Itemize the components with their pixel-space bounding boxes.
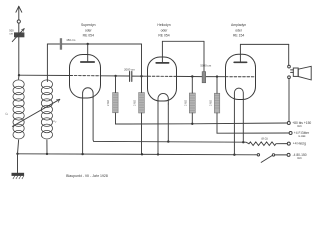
svg-text:Superdyn: Superdyn [81,23,96,27]
svg-text:cm: cm [10,32,13,35]
svg-text:Heliodyn: Heliodyn [157,23,170,27]
svg-text:RE 054: RE 054 [83,34,94,38]
svg-text:(8 Ω): (8 Ω) [261,136,267,140]
svg-text:2 MΩ: 2 MΩ [184,100,187,106]
svg-text:5000 cm: 5000 cm [200,64,211,68]
svg-text:oder: oder [85,29,93,33]
svg-text:Ampladyn: Ampladyn [231,23,246,27]
svg-text:RE 154: RE 154 [233,34,244,38]
svg-text:2000 cm: 2000 cm [124,67,135,71]
svg-text:Blaupunkt - VII - Jahr 1928: Blaupunkt - VII - Jahr 1928 [66,174,108,178]
svg-text:m.Akk: m.Akk [298,134,306,138]
svg-text:L₁: L₁ [6,112,9,116]
svg-text:Volt: Volt [297,156,302,160]
svg-text:RE 054: RE 054 [158,34,169,38]
svg-text:L₂: L₂ [54,119,58,123]
svg-text:oder: oder [235,29,243,33]
svg-text:Volt: Volt [297,124,302,128]
svg-text:+4 Heizg: +4 Heizg [293,142,306,146]
svg-text:2 MΩ: 2 MΩ [107,100,110,106]
svg-text:150 cm: 150 cm [66,38,76,42]
svg-text:oder: oder [161,29,169,33]
svg-text:+80 bis +150: +80 bis +150 [292,121,311,125]
svg-text:2 MΩ: 2 MΩ [209,100,212,106]
svg-text:2 MΩ: 2 MΩ [134,100,137,106]
